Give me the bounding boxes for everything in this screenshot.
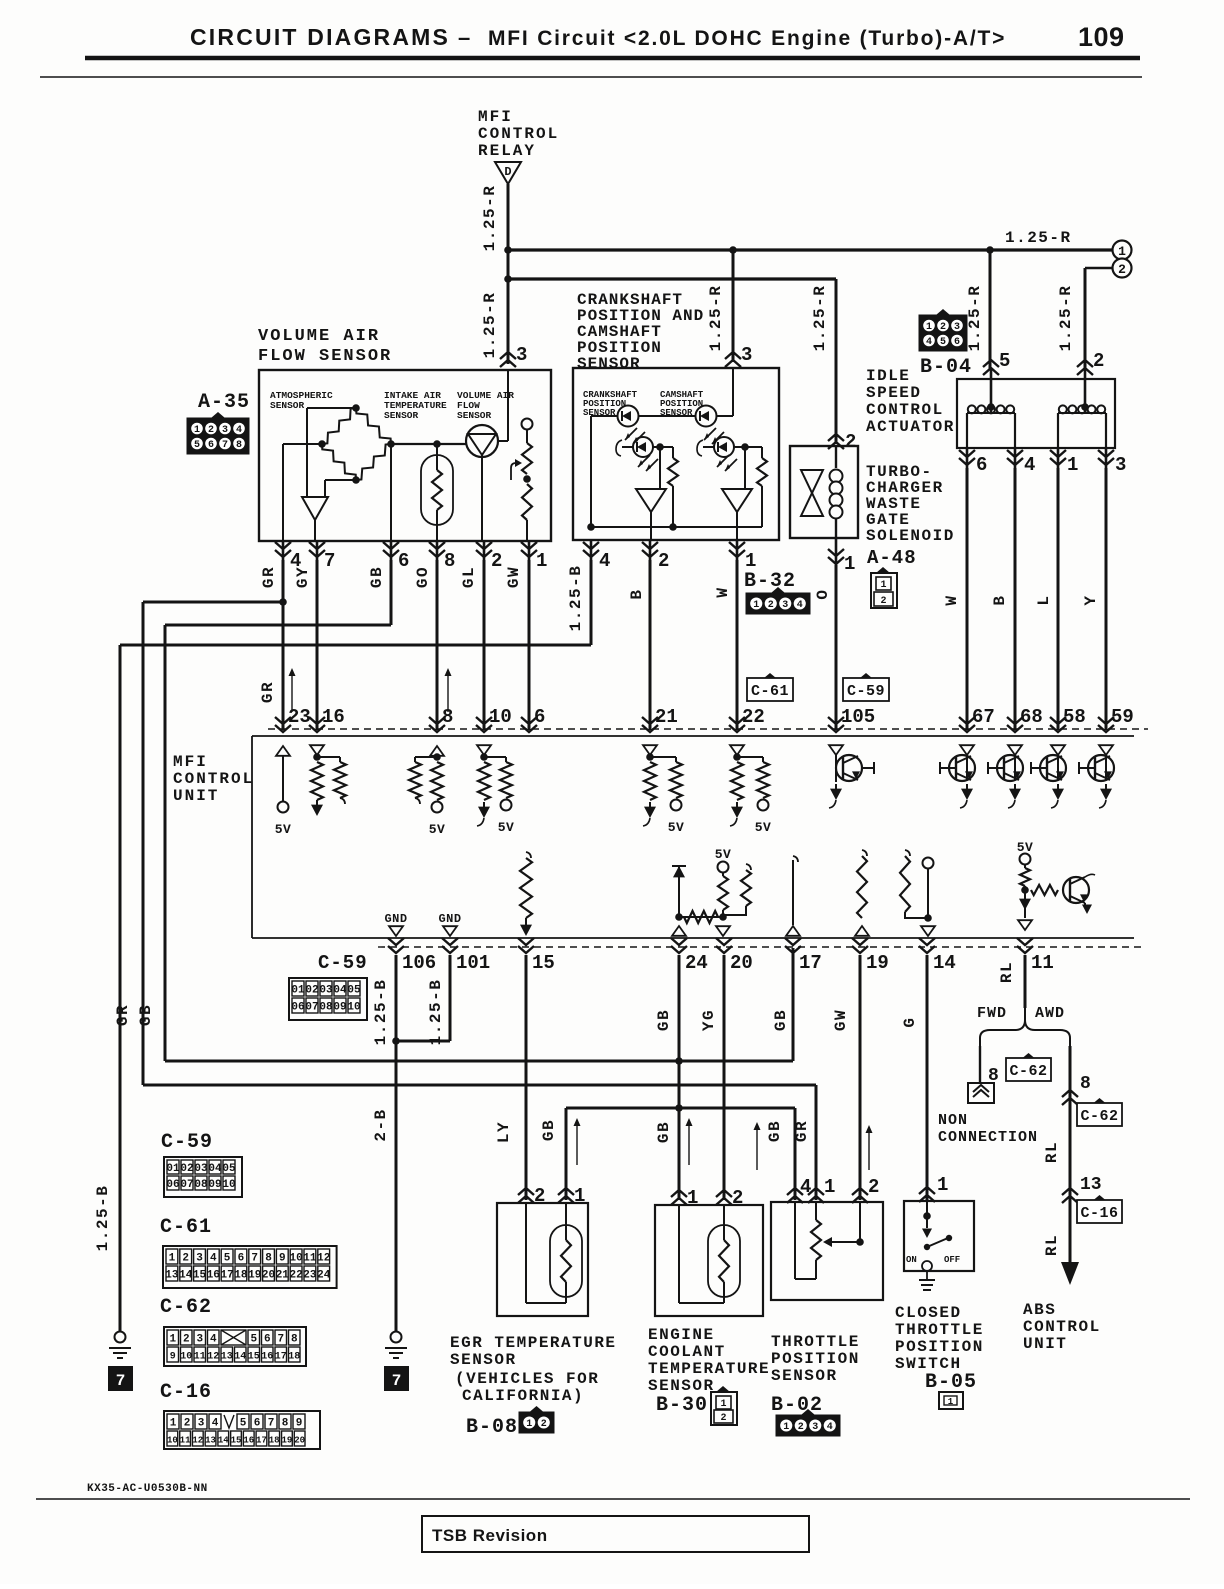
- svg-text:G: G: [901, 1016, 919, 1027]
- svg-text:SENSOR: SENSOR: [648, 1377, 715, 1395]
- svg-text:GB: GB: [772, 1009, 790, 1031]
- svg-text:1.25-R: 1.25-R: [481, 185, 499, 252]
- svg-text:14: 14: [234, 1352, 246, 1363]
- svg-text:3: 3: [222, 425, 228, 436]
- svg-text:13: 13: [221, 1352, 233, 1363]
- svg-text:A-35: A-35: [198, 391, 250, 414]
- svg-text:03: 03: [319, 985, 333, 997]
- svg-text:5V: 5V: [755, 820, 772, 835]
- svg-text:12: 12: [207, 1352, 219, 1363]
- svg-text:4: 4: [926, 337, 932, 348]
- svg-text:3: 3: [812, 1422, 818, 1433]
- svg-text:5: 5: [940, 337, 946, 348]
- svg-text:C-62: C-62: [1009, 1063, 1047, 1080]
- svg-text:2: 2: [541, 1419, 547, 1430]
- svg-text:2: 2: [183, 1334, 190, 1346]
- svg-text:2: 2: [868, 1176, 879, 1198]
- svg-text:05: 05: [222, 1163, 236, 1175]
- svg-text:1.25-R: 1.25-R: [1057, 285, 1075, 352]
- svg-text:19: 19: [248, 1270, 261, 1282]
- svg-text:MFI Circuit <2.0L DOHC Engine: MFI Circuit <2.0L DOHC Engine (Turbo)-A/…: [488, 27, 1006, 50]
- svg-text:POSITION: POSITION: [895, 1338, 984, 1356]
- svg-text:GR: GR: [793, 1120, 811, 1142]
- svg-text:1.25-B: 1.25-B: [427, 979, 445, 1046]
- svg-text:GY: GY: [294, 566, 312, 588]
- svg-text:1.25-B: 1.25-B: [567, 565, 585, 632]
- svg-text:6: 6: [254, 1418, 261, 1430]
- svg-text:17: 17: [256, 1436, 267, 1446]
- svg-text:1.25-R: 1.25-R: [707, 285, 725, 352]
- svg-text:MFI: MFI: [478, 108, 513, 126]
- svg-text:3: 3: [1115, 454, 1126, 476]
- svg-text:12: 12: [192, 1436, 203, 1446]
- svg-text:4: 4: [210, 1253, 217, 1265]
- svg-text:RELAY: RELAY: [478, 142, 536, 160]
- svg-text:C-59: C-59: [847, 683, 885, 700]
- svg-text:11: 11: [303, 1253, 317, 1265]
- svg-text:15: 15: [248, 1352, 260, 1363]
- svg-text:AWD: AWD: [1035, 1005, 1065, 1022]
- svg-text:2: 2: [534, 1185, 545, 1207]
- svg-text:3: 3: [196, 1334, 203, 1346]
- svg-text:7: 7: [116, 1372, 126, 1390]
- svg-text:20: 20: [262, 1270, 275, 1282]
- svg-text:10: 10: [222, 1179, 235, 1191]
- svg-text:2: 2: [182, 1253, 189, 1265]
- svg-text:21: 21: [276, 1270, 290, 1282]
- svg-text:1.25-R: 1.25-R: [966, 285, 984, 352]
- svg-text:SPEED: SPEED: [866, 384, 922, 402]
- svg-text:5: 5: [999, 350, 1010, 372]
- svg-text:1.25-R: 1.25-R: [481, 292, 499, 359]
- svg-text:58: 58: [1063, 706, 1086, 728]
- svg-text:C-61: C-61: [160, 1216, 212, 1239]
- svg-text:2: 2: [208, 425, 214, 436]
- svg-text:2-B: 2-B: [372, 1108, 390, 1141]
- svg-text:GW: GW: [832, 1009, 850, 1031]
- svg-text:16: 16: [243, 1436, 254, 1446]
- svg-text:RL: RL: [1043, 1234, 1061, 1256]
- svg-text:09: 09: [208, 1179, 221, 1191]
- svg-text:67: 67: [972, 706, 995, 728]
- svg-text:8: 8: [442, 706, 453, 728]
- svg-text:ACTUATOR: ACTUATOR: [866, 418, 955, 436]
- svg-text:101: 101: [456, 952, 490, 974]
- svg-text:04: 04: [208, 1163, 222, 1175]
- svg-text:19: 19: [866, 952, 889, 974]
- svg-text:2: 2: [720, 1413, 726, 1424]
- svg-text:SENSOR: SENSOR: [270, 400, 305, 411]
- svg-text:SENSOR: SENSOR: [450, 1351, 517, 1369]
- svg-text:02: 02: [180, 1163, 193, 1175]
- svg-text:GR: GR: [259, 681, 277, 703]
- svg-text:7: 7: [222, 440, 228, 451]
- svg-text:C-59: C-59: [161, 1131, 213, 1154]
- svg-text:22: 22: [742, 706, 765, 728]
- svg-text:3: 3: [198, 1418, 205, 1430]
- svg-text:GB: GB: [655, 1121, 673, 1143]
- svg-text:GB: GB: [540, 1119, 558, 1141]
- svg-text:17: 17: [275, 1352, 287, 1363]
- svg-text:3: 3: [516, 344, 527, 366]
- svg-text:RL: RL: [1043, 1141, 1061, 1163]
- svg-text:1: 1: [926, 322, 932, 333]
- svg-text:L: L: [1035, 594, 1053, 605]
- svg-text:GB: GB: [766, 1120, 784, 1142]
- svg-text:CLOSED: CLOSED: [895, 1304, 962, 1322]
- svg-text:ABS: ABS: [1023, 1301, 1056, 1319]
- svg-text:C-16: C-16: [1080, 1205, 1118, 1222]
- svg-text:4: 4: [800, 1176, 811, 1198]
- svg-text:7: 7: [392, 1372, 402, 1390]
- svg-text:13: 13: [205, 1436, 216, 1446]
- svg-text:LY: LY: [495, 1121, 513, 1143]
- svg-text:10: 10: [289, 1253, 302, 1265]
- svg-text:Y: Y: [1082, 594, 1100, 605]
- svg-text:1.25-B: 1.25-B: [372, 979, 390, 1046]
- svg-text:11: 11: [1031, 952, 1054, 974]
- svg-text:C-59: C-59: [318, 952, 368, 974]
- svg-text:MFI: MFI: [173, 753, 208, 771]
- svg-text:POSITION: POSITION: [771, 1350, 860, 1368]
- svg-text:5: 5: [224, 1253, 231, 1265]
- svg-text:6: 6: [208, 440, 214, 451]
- svg-text:B-08: B-08: [466, 1416, 518, 1439]
- svg-text:18: 18: [288, 1352, 300, 1363]
- svg-text:10: 10: [167, 1436, 178, 1446]
- svg-text:GR: GR: [260, 566, 278, 588]
- svg-text:1: 1: [824, 1176, 835, 1198]
- svg-text:2: 2: [768, 600, 774, 611]
- svg-text:C-61: C-61: [751, 683, 789, 700]
- svg-text:5V: 5V: [498, 820, 515, 835]
- svg-text:18: 18: [269, 1436, 280, 1446]
- svg-text:1: 1: [783, 1422, 789, 1433]
- svg-text:12: 12: [317, 1253, 330, 1265]
- svg-text:RL: RL: [998, 961, 1016, 983]
- svg-text:05: 05: [347, 985, 361, 997]
- svg-text:1: 1: [536, 550, 547, 572]
- svg-text:GB: GB: [368, 566, 386, 588]
- svg-text:59: 59: [1111, 706, 1134, 728]
- svg-text:7: 7: [277, 1334, 284, 1346]
- svg-text:15: 15: [231, 1436, 242, 1446]
- svg-text:KX35-AC-U0530B-NN: KX35-AC-U0530B-NN: [87, 1483, 208, 1495]
- svg-text:109: 109: [1078, 22, 1125, 52]
- svg-text:THROTTLE: THROTTLE: [895, 1321, 984, 1339]
- svg-text:13: 13: [165, 1270, 179, 1282]
- svg-text:1: 1: [948, 1397, 954, 1407]
- svg-text:1: 1: [574, 1185, 585, 1207]
- svg-text:6: 6: [534, 706, 545, 728]
- svg-text:9: 9: [279, 1253, 286, 1265]
- svg-text:06: 06: [291, 1002, 304, 1014]
- svg-text:6: 6: [976, 454, 987, 476]
- svg-text:B-30: B-30: [656, 1394, 708, 1417]
- svg-text:CONNECTION: CONNECTION: [938, 1129, 1038, 1146]
- svg-text:1.25-R: 1.25-R: [1005, 229, 1072, 247]
- svg-text:4: 4: [1024, 454, 1035, 476]
- svg-text:O: O: [814, 588, 832, 599]
- svg-text:TSB Revision: TSB Revision: [432, 1526, 548, 1545]
- svg-text:THROTTLE: THROTTLE: [771, 1333, 860, 1351]
- svg-text:5V: 5V: [275, 822, 292, 837]
- svg-text:1: 1: [169, 1253, 176, 1265]
- svg-text:21: 21: [655, 706, 678, 728]
- svg-text:68: 68: [1020, 706, 1043, 728]
- svg-text:6: 6: [398, 550, 409, 572]
- svg-text:UNIT: UNIT: [1023, 1335, 1067, 1353]
- svg-text:2: 2: [798, 1422, 804, 1433]
- svg-text:1: 1: [194, 425, 200, 436]
- svg-text:5V: 5V: [668, 820, 685, 835]
- svg-text:8: 8: [988, 1066, 999, 1086]
- svg-text:23: 23: [288, 706, 311, 728]
- svg-text:(VEHICLES FOR: (VEHICLES FOR: [455, 1370, 599, 1388]
- svg-text:SENSOR: SENSOR: [771, 1367, 838, 1385]
- svg-text:8: 8: [291, 1334, 298, 1346]
- svg-text:2: 2: [184, 1418, 191, 1430]
- svg-text:2: 2: [845, 431, 856, 453]
- svg-text:2: 2: [1118, 262, 1126, 277]
- svg-text:03: 03: [194, 1163, 208, 1175]
- svg-text:SENSOR: SENSOR: [457, 410, 492, 421]
- svg-text:23: 23: [303, 1270, 317, 1282]
- svg-text:16: 16: [322, 706, 345, 728]
- svg-text:2: 2: [940, 322, 946, 333]
- svg-text:COOLANT: COOLANT: [648, 1343, 726, 1361]
- svg-text:ENGINE: ENGINE: [648, 1326, 715, 1344]
- svg-text:1: 1: [170, 1418, 177, 1430]
- svg-text:4: 4: [827, 1422, 833, 1433]
- svg-text:07: 07: [180, 1179, 193, 1191]
- svg-text:GO: GO: [414, 566, 432, 588]
- svg-text:2: 2: [1093, 350, 1104, 372]
- svg-text:B-04: B-04: [920, 356, 972, 379]
- svg-text:8: 8: [282, 1418, 289, 1430]
- svg-text:1: 1: [687, 1187, 698, 1209]
- svg-text:5: 5: [194, 440, 200, 451]
- svg-text:16: 16: [207, 1270, 220, 1282]
- svg-text:4: 4: [210, 1334, 217, 1346]
- svg-text:EGR TEMPERATURE: EGR TEMPERATURE: [450, 1334, 617, 1352]
- svg-text:1.25-R: 1.25-R: [811, 285, 829, 352]
- svg-text:2: 2: [658, 550, 669, 572]
- svg-text:C-62: C-62: [160, 1296, 212, 1319]
- svg-text:FLOW SENSOR: FLOW SENSOR: [258, 347, 392, 366]
- svg-text:15: 15: [193, 1270, 207, 1282]
- svg-text:1: 1: [1067, 454, 1078, 476]
- svg-text:B: B: [991, 594, 1009, 605]
- svg-text:2: 2: [491, 550, 502, 572]
- svg-text:B: B: [628, 588, 646, 599]
- svg-text:15: 15: [532, 952, 555, 974]
- svg-text:SOLENOID: SOLENOID: [866, 527, 955, 545]
- svg-text:6: 6: [238, 1253, 245, 1265]
- svg-text:24: 24: [317, 1270, 331, 1282]
- svg-text:08: 08: [319, 1002, 333, 1014]
- svg-text:6: 6: [954, 337, 960, 348]
- svg-text:24: 24: [685, 952, 708, 974]
- svg-text:20: 20: [294, 1436, 305, 1446]
- svg-text:02: 02: [305, 985, 318, 997]
- svg-text:B-05: B-05: [925, 1371, 977, 1394]
- svg-text:YG: YG: [700, 1009, 718, 1031]
- svg-text:16: 16: [261, 1352, 273, 1363]
- svg-text:CONTROL: CONTROL: [866, 401, 944, 419]
- svg-text:08: 08: [194, 1179, 208, 1191]
- svg-text:14: 14: [933, 952, 956, 974]
- svg-text:CIRCUIT DIAGRAMS: CIRCUIT DIAGRAMS: [190, 24, 450, 50]
- svg-text:1: 1: [937, 1174, 948, 1196]
- svg-text:–: –: [458, 25, 470, 50]
- svg-text:7: 7: [268, 1418, 275, 1430]
- svg-text:11: 11: [194, 1352, 206, 1363]
- svg-text:04: 04: [333, 985, 347, 997]
- svg-text:2: 2: [732, 1187, 743, 1209]
- svg-text:CALIFORNIA): CALIFORNIA): [462, 1387, 584, 1405]
- svg-text:GL: GL: [460, 566, 478, 588]
- svg-text:1: 1: [745, 550, 756, 572]
- svg-text:1: 1: [1118, 244, 1126, 259]
- svg-text:1: 1: [169, 1334, 176, 1346]
- svg-text:5: 5: [250, 1334, 257, 1346]
- svg-text:10: 10: [180, 1352, 192, 1363]
- svg-text:20: 20: [730, 952, 753, 974]
- svg-text:NON: NON: [938, 1112, 968, 1129]
- svg-text:105: 105: [841, 706, 875, 728]
- svg-text:10: 10: [347, 1002, 360, 1014]
- svg-text:3: 3: [954, 322, 960, 333]
- svg-text:11: 11: [180, 1436, 191, 1446]
- svg-text:7: 7: [251, 1253, 258, 1265]
- svg-text:CONTROL: CONTROL: [478, 125, 559, 143]
- svg-text:GND: GND: [384, 912, 407, 926]
- svg-text:GR: GR: [114, 1004, 132, 1026]
- svg-text:14: 14: [179, 1270, 193, 1282]
- svg-text:GND: GND: [438, 912, 461, 926]
- svg-text:1: 1: [844, 553, 855, 575]
- svg-text:6: 6: [264, 1334, 271, 1346]
- svg-text:GB: GB: [137, 1004, 155, 1026]
- svg-text:07: 07: [305, 1002, 318, 1014]
- svg-text:SENSOR: SENSOR: [384, 410, 419, 421]
- svg-text:4: 4: [599, 550, 610, 572]
- svg-text:D: D: [504, 165, 511, 179]
- svg-text:09: 09: [333, 1002, 346, 1014]
- svg-text:4: 4: [797, 600, 803, 611]
- svg-text:OFF: OFF: [944, 1255, 960, 1265]
- svg-text:ON: ON: [906, 1255, 917, 1265]
- svg-text:17: 17: [220, 1270, 233, 1282]
- svg-text:GB: GB: [655, 1009, 673, 1031]
- svg-text:FWD: FWD: [977, 1005, 1007, 1022]
- svg-text:8: 8: [1080, 1074, 1091, 1094]
- svg-text:B-32: B-32: [744, 570, 796, 593]
- svg-text:8: 8: [265, 1253, 272, 1265]
- svg-text:4: 4: [236, 425, 242, 436]
- svg-text:01: 01: [291, 985, 305, 997]
- svg-text:TEMPERATURE: TEMPERATURE: [648, 1360, 770, 1378]
- svg-text:3: 3: [196, 1253, 203, 1265]
- svg-text:SENSOR: SENSOR: [577, 355, 641, 373]
- svg-text:17: 17: [799, 952, 822, 974]
- svg-text:A-48: A-48: [867, 547, 917, 569]
- svg-text:14: 14: [218, 1436, 229, 1446]
- svg-text:8: 8: [236, 440, 242, 451]
- svg-text:9: 9: [170, 1352, 176, 1363]
- svg-text:5V: 5V: [429, 822, 446, 837]
- svg-text:GW: GW: [505, 566, 523, 588]
- svg-text:2: 2: [880, 596, 886, 607]
- svg-text:1: 1: [880, 580, 886, 591]
- svg-text:W: W: [943, 594, 961, 605]
- svg-text:CONTROL: CONTROL: [173, 770, 254, 788]
- svg-text:CONTROL: CONTROL: [1023, 1318, 1101, 1336]
- svg-text:9: 9: [296, 1418, 303, 1430]
- svg-text:1: 1: [753, 600, 759, 611]
- svg-text:C-62: C-62: [1080, 1108, 1118, 1125]
- svg-text:3: 3: [782, 600, 788, 611]
- svg-text:VOLUME AIR: VOLUME AIR: [258, 327, 380, 346]
- svg-text:5V: 5V: [715, 847, 732, 862]
- svg-text:1: 1: [526, 1419, 532, 1430]
- svg-text:C-16: C-16: [160, 1381, 212, 1404]
- svg-text:22: 22: [289, 1270, 302, 1282]
- svg-text:1: 1: [720, 1399, 726, 1410]
- svg-text:06: 06: [166, 1179, 179, 1191]
- svg-text:19: 19: [282, 1436, 293, 1446]
- svg-text:01: 01: [166, 1163, 180, 1175]
- svg-text:18: 18: [234, 1270, 248, 1282]
- svg-text:5: 5: [240, 1418, 247, 1430]
- svg-text:4: 4: [212, 1418, 219, 1430]
- svg-text:IDLE: IDLE: [866, 367, 910, 385]
- svg-text:W: W: [714, 586, 732, 597]
- svg-text:3: 3: [741, 344, 752, 366]
- svg-text:106: 106: [402, 952, 436, 974]
- svg-text:B-02: B-02: [771, 1394, 823, 1417]
- svg-text:13: 13: [1080, 1175, 1102, 1195]
- svg-text:7: 7: [324, 550, 335, 572]
- svg-text:8: 8: [444, 550, 455, 572]
- svg-text:UNIT: UNIT: [173, 787, 219, 805]
- svg-text:10: 10: [489, 706, 512, 728]
- svg-text:1.25-B: 1.25-B: [94, 1185, 112, 1252]
